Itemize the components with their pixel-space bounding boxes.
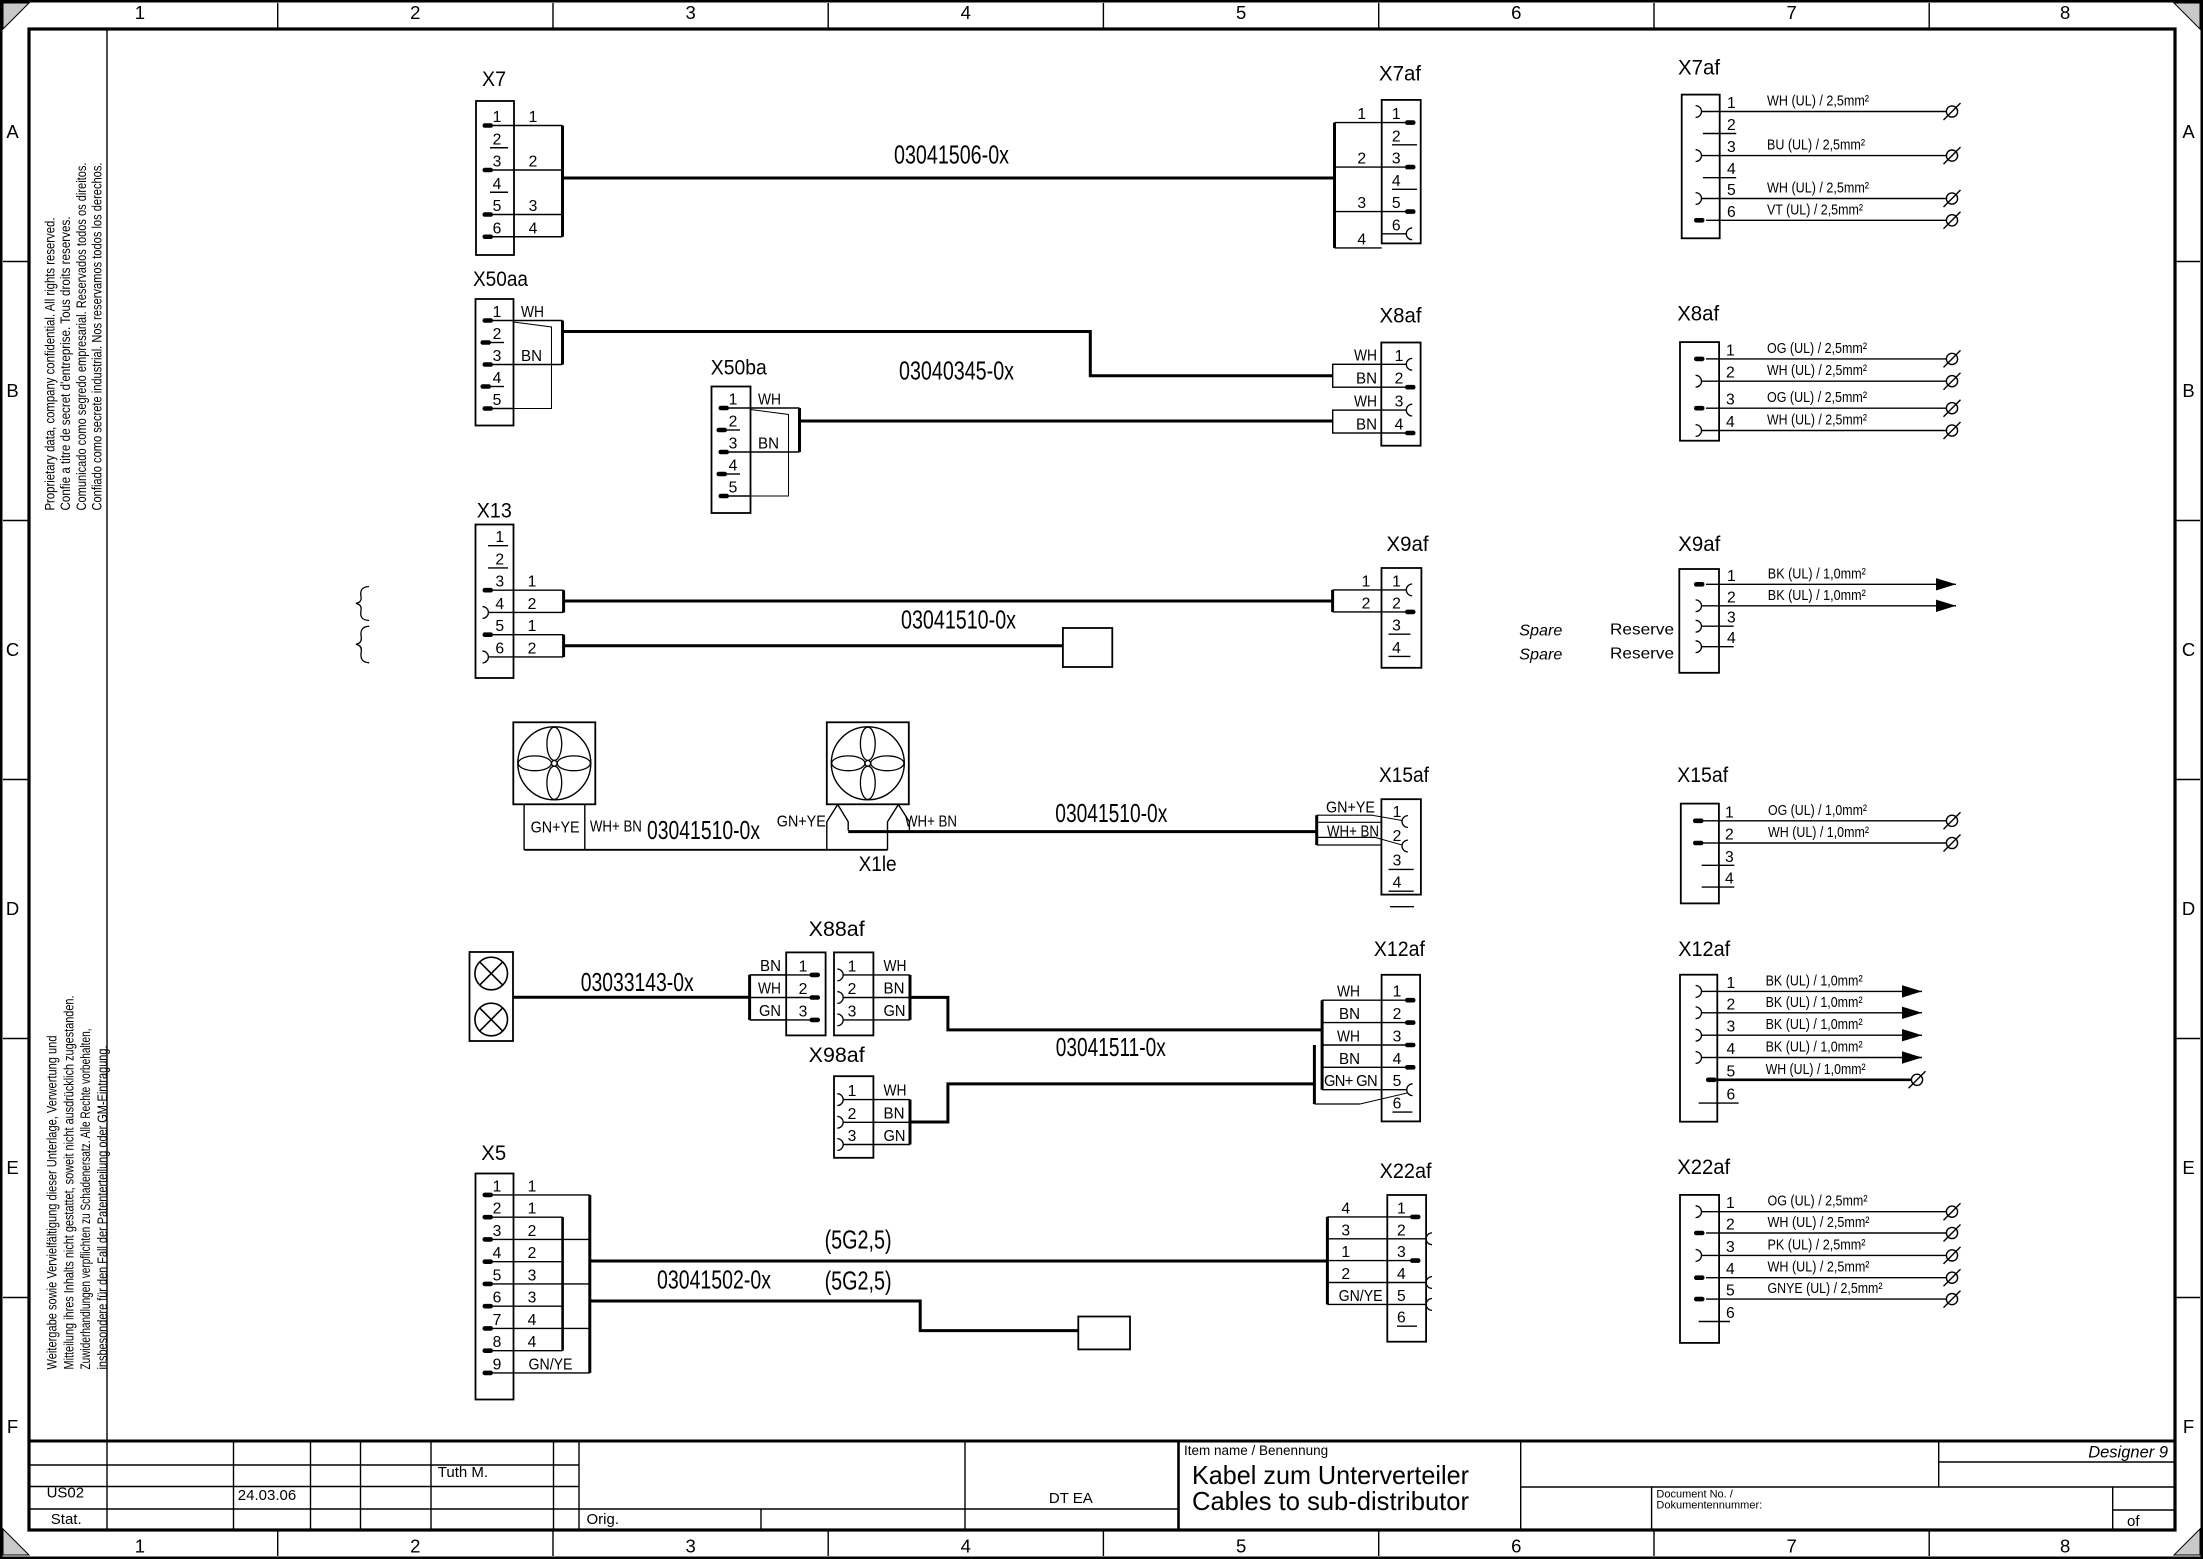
svg-text:03041510-0x: 03041510-0x bbox=[901, 605, 1016, 635]
svg-text:03041510-0x: 03041510-0x bbox=[647, 815, 760, 845]
svg-text:1: 1 bbox=[1726, 1195, 1735, 1212]
svg-text:5: 5 bbox=[1236, 1536, 1246, 1557]
svg-text:OG (UL) / 2,5mm²: OG (UL) / 2,5mm² bbox=[1768, 1193, 1868, 1210]
svg-text:1: 1 bbox=[528, 618, 537, 635]
svg-text:2: 2 bbox=[528, 1245, 537, 1262]
svg-text:BN: BN bbox=[1339, 1051, 1360, 1068]
svg-text:8: 8 bbox=[2060, 1536, 2070, 1557]
svg-text:5: 5 bbox=[493, 1267, 502, 1284]
svg-text:5: 5 bbox=[493, 198, 502, 215]
svg-text:2: 2 bbox=[493, 1201, 502, 1218]
svg-text:X7: X7 bbox=[482, 68, 506, 91]
svg-text:4: 4 bbox=[493, 176, 502, 193]
svg-text:2: 2 bbox=[1362, 595, 1371, 612]
svg-text:1: 1 bbox=[1393, 804, 1402, 821]
svg-text:2: 2 bbox=[1357, 151, 1366, 168]
svg-text:X22af: X22af bbox=[1677, 1156, 1730, 1179]
svg-text:(5G2,5): (5G2,5) bbox=[825, 1266, 892, 1296]
svg-text:03041502-0x: 03041502-0x bbox=[657, 1265, 771, 1295]
svg-text:3: 3 bbox=[1725, 849, 1734, 866]
svg-text:X50aa: X50aa bbox=[473, 268, 528, 291]
svg-text:4: 4 bbox=[1393, 875, 1402, 892]
svg-text:X7af: X7af bbox=[1379, 63, 1421, 86]
svg-text:WH: WH bbox=[1337, 1029, 1360, 1046]
svg-text:3: 3 bbox=[1392, 151, 1401, 168]
fan motor 2 bbox=[827, 722, 909, 804]
svg-text:WH: WH bbox=[1337, 984, 1360, 1001]
svg-text:4: 4 bbox=[1726, 414, 1735, 431]
svg-text:3: 3 bbox=[493, 154, 502, 171]
wire X15af-1 OG to terminal bbox=[1719, 802, 1961, 830]
svg-text:4: 4 bbox=[1395, 417, 1404, 434]
svg-text:GN+YE: GN+YE bbox=[777, 813, 826, 830]
svg-text:4: 4 bbox=[493, 1245, 502, 1262]
wire cable 03033143-0x lamps to X88af bbox=[513, 996, 750, 999]
wire X22af-1 OG ( to terminal bbox=[1719, 1193, 1960, 1221]
svg-text:BN: BN bbox=[884, 981, 905, 998]
svg-text:5: 5 bbox=[495, 618, 504, 635]
svg-text:WH (UL) / 2,5mm²: WH (UL) / 2,5mm² bbox=[1768, 1214, 1870, 1231]
svg-text:1: 1 bbox=[493, 304, 502, 321]
wire X22af-5 GNYE to terminal bbox=[1719, 1280, 1960, 1308]
svg-text:4: 4 bbox=[1727, 161, 1736, 178]
title block bbox=[29, 1441, 2175, 1530]
note reproduction prohibited (rotated, bottom-left) bbox=[45, 996, 110, 1370]
connector X5 bbox=[476, 1142, 590, 1400]
svg-text:Cables to sub-distributor: Cables to sub-distributor bbox=[1192, 1486, 1469, 1516]
svg-text:BK (UL) / 1,0mm²: BK (UL) / 1,0mm² bbox=[1766, 972, 1863, 989]
svg-text:3: 3 bbox=[1726, 1239, 1735, 1256]
svg-text:Zuwiderhandlungen verpflichten: Zuwiderhandlungen verpflichten zu Schade… bbox=[78, 1029, 93, 1370]
svg-text:WH (UL) / 2,5mm²: WH (UL) / 2,5mm² bbox=[1767, 93, 1869, 110]
svg-text:8: 8 bbox=[2060, 2, 2070, 23]
svg-text:2: 2 bbox=[848, 1106, 857, 1123]
svg-text:Reserve: Reserve bbox=[1610, 646, 1674, 663]
svg-text:2: 2 bbox=[410, 2, 420, 23]
svg-text:F: F bbox=[7, 1416, 18, 1437]
svg-text:2: 2 bbox=[528, 596, 537, 613]
connector X13 bbox=[476, 500, 514, 679]
svg-text:BN: BN bbox=[760, 958, 781, 975]
svg-text:X98af: X98af bbox=[809, 1044, 865, 1067]
cable cores at X13 pins 3-4 bbox=[514, 574, 564, 613]
wire X7af-1 WH to terminal bbox=[1720, 93, 1961, 121]
svg-text:BN: BN bbox=[1339, 1006, 1360, 1023]
svg-text:3: 3 bbox=[1341, 1222, 1350, 1239]
wire X22af-4 WH ( to terminal bbox=[1719, 1259, 1960, 1287]
svg-text:Stat.: Stat. bbox=[51, 1511, 82, 1528]
svg-text:1: 1 bbox=[1362, 573, 1371, 590]
svg-text:2: 2 bbox=[1726, 1217, 1735, 1234]
svg-text:2: 2 bbox=[848, 981, 857, 998]
svg-text:WH: WH bbox=[758, 981, 781, 998]
svg-text:2: 2 bbox=[493, 131, 502, 148]
svg-text:BK (UL) / 1,0mm²: BK (UL) / 1,0mm² bbox=[1768, 587, 1866, 604]
cable cores at X22af (4,3,1,2,GN/YE) bbox=[1327, 1200, 1387, 1305]
svg-text:1: 1 bbox=[848, 1083, 857, 1100]
svg-text:24.03.06: 24.03.06 bbox=[238, 1487, 296, 1504]
svg-text:4: 4 bbox=[1725, 871, 1734, 888]
cable labels at X8af pins 1-2 (WH/BN) bbox=[1333, 348, 1382, 388]
svg-text:Weitergabe sowie Vervielfält: Weitergabe sowie Vervielfältigung dieser… bbox=[45, 1036, 60, 1370]
wire X12af-2 BK to arrow bbox=[1717, 994, 1922, 1019]
svg-text:BN: BN bbox=[1356, 417, 1377, 434]
wire cable 03041510-0x fan1 to X1le bbox=[524, 849, 887, 851]
svg-text:3: 3 bbox=[848, 1003, 857, 1020]
svg-text:US02: US02 bbox=[47, 1485, 85, 1502]
svg-text:X88af: X88af bbox=[809, 918, 865, 941]
svg-text:8: 8 bbox=[493, 1334, 502, 1351]
svg-text:Designer 9: Designer 9 bbox=[2088, 1444, 2168, 1462]
svg-text:1: 1 bbox=[1393, 984, 1402, 1001]
cable end box (lower) bbox=[1078, 1317, 1130, 1350]
svg-text:WH (UL) / 2,5mm²: WH (UL) / 2,5mm² bbox=[1767, 180, 1869, 197]
connector X1le plug symbols bbox=[827, 805, 910, 877]
svg-text:5: 5 bbox=[1392, 195, 1401, 212]
cable cores at X9af (1-2) bbox=[1333, 573, 1382, 612]
svg-text:Proprietary data, company con: Proprietary data, company confidential. … bbox=[43, 218, 58, 511]
svg-text:WH: WH bbox=[758, 392, 781, 409]
svg-text:1: 1 bbox=[1727, 95, 1736, 112]
svg-text:3: 3 bbox=[685, 1536, 695, 1557]
svg-text:Comunicado como segredo empres: Comunicado como segredo empresarial. Res… bbox=[74, 163, 89, 511]
svg-text:1: 1 bbox=[529, 109, 538, 126]
title block texts bbox=[47, 1443, 2168, 1530]
svg-text:BN: BN bbox=[521, 348, 542, 365]
svg-text:1: 1 bbox=[799, 958, 808, 975]
wire X12af-3 BK to arrow bbox=[1717, 1016, 1922, 1041]
svg-text:1: 1 bbox=[1727, 975, 1736, 992]
connector X15af (sub-distributor side) bbox=[1379, 764, 1429, 907]
cable cores at X7af (1-4) bbox=[1335, 106, 1382, 248]
svg-text:4: 4 bbox=[1727, 630, 1736, 647]
wire X9af-1 BK to arrow bbox=[1719, 565, 1956, 590]
svg-text:03041511-0x: 03041511-0x bbox=[1056, 1032, 1166, 1062]
connector X50aa bbox=[473, 268, 528, 426]
svg-text:X22af: X22af bbox=[1380, 1160, 1432, 1183]
svg-text:WH (UL) / 1,0mm²: WH (UL) / 1,0mm² bbox=[1766, 1061, 1866, 1078]
svg-text:4: 4 bbox=[1341, 1200, 1350, 1217]
connector X7af (field wiring side) bbox=[1678, 57, 1736, 239]
svg-text:OG (UL) / 1,0mm²: OG (UL) / 1,0mm² bbox=[1768, 802, 1867, 819]
svg-text:Reserve: Reserve bbox=[1610, 622, 1674, 639]
note proprietary data (rotated, top-left) bbox=[43, 163, 105, 511]
svg-text:2: 2 bbox=[528, 1223, 537, 1240]
wire cable 03040345-0x from X50aa to X8af bbox=[563, 332, 1333, 376]
fan 1 wires GN+YE / WH+BN bbox=[524, 804, 642, 849]
svg-text:BK (UL) / 1,0mm²: BK (UL) / 1,0mm² bbox=[1766, 1039, 1863, 1056]
svg-text:03041506-0x: 03041506-0x bbox=[894, 140, 1009, 170]
cable labels at X88af right (WH/BN/GN) bbox=[884, 958, 911, 1020]
svg-text:6: 6 bbox=[1727, 204, 1736, 221]
svg-text:3: 3 bbox=[528, 1290, 537, 1307]
svg-text:1: 1 bbox=[528, 1201, 537, 1218]
svg-text:1: 1 bbox=[135, 1536, 145, 1557]
svg-text:1: 1 bbox=[1727, 568, 1736, 585]
svg-text:GNYE (UL) / 2,5mm²: GNYE (UL) / 2,5mm² bbox=[1768, 1280, 1883, 1297]
cable end box bbox=[1063, 628, 1112, 667]
svg-text:X8af: X8af bbox=[1380, 305, 1422, 328]
wire cable 03041506-0x bbox=[563, 177, 1335, 180]
svg-text:PK (UL) / 2,5mm²: PK (UL) / 2,5mm² bbox=[1768, 1236, 1866, 1253]
svg-text:DT EA: DT EA bbox=[1049, 1490, 1093, 1507]
svg-text:1: 1 bbox=[528, 1178, 537, 1195]
wire cable from X50ba to X8af pins 3-4 bbox=[800, 420, 1333, 423]
svg-text:6: 6 bbox=[1511, 2, 1521, 23]
svg-text:E: E bbox=[6, 1157, 18, 1178]
svg-text:4: 4 bbox=[1357, 231, 1366, 248]
svg-text:2: 2 bbox=[529, 154, 538, 171]
wire X22af-2 WH ( to terminal bbox=[1719, 1214, 1960, 1242]
svg-text:GN: GN bbox=[884, 1128, 906, 1145]
svg-text:5: 5 bbox=[1727, 1063, 1736, 1080]
connector X15af (field wiring side) bbox=[1677, 764, 1734, 903]
cable labels at X88af left (BN/WH/GN) bbox=[750, 958, 787, 1020]
svg-text:2: 2 bbox=[1393, 1006, 1402, 1023]
connector X7af (sub-distributor side) bbox=[1379, 63, 1421, 244]
svg-text:3: 3 bbox=[1392, 618, 1401, 635]
svg-text:3: 3 bbox=[493, 1223, 502, 1240]
svg-text:GN: GN bbox=[759, 1003, 781, 1020]
fan 2 wire labels bbox=[777, 813, 957, 830]
svg-text:1: 1 bbox=[1357, 106, 1366, 123]
svg-text:4: 4 bbox=[1397, 1266, 1406, 1283]
svg-text:6: 6 bbox=[1397, 1310, 1406, 1327]
wire X12af-4 BK to arrow bbox=[1717, 1039, 1922, 1064]
wire cable 03041510-0x X13 to X9af bbox=[564, 600, 1333, 603]
svg-text:6: 6 bbox=[1392, 217, 1401, 234]
svg-text:3: 3 bbox=[1726, 392, 1735, 409]
svg-text:X9af: X9af bbox=[1387, 533, 1429, 556]
svg-text:3: 3 bbox=[1727, 1019, 1736, 1036]
svg-text:4: 4 bbox=[1726, 1261, 1735, 1278]
svg-text:Mitteilung ihres Inhalts nicht: Mitteilung ihres Inhalts nicht gestattet… bbox=[61, 996, 76, 1370]
svg-text:D: D bbox=[2182, 898, 2195, 919]
cable screen path at X12af pin 5 bbox=[1314, 1045, 1407, 1104]
svg-text:Tuth M.: Tuth M. bbox=[438, 1464, 488, 1481]
wire X7af-5 WH to terminal bbox=[1720, 180, 1961, 208]
svg-text:2: 2 bbox=[1392, 128, 1401, 145]
svg-text:(5G2,5): (5G2,5) bbox=[825, 1225, 892, 1255]
svg-text:BN: BN bbox=[1356, 371, 1377, 388]
wire X7af-6 VT to terminal bbox=[1720, 201, 1961, 229]
wire X15af-2 WH to terminal bbox=[1719, 824, 1961, 852]
svg-text:03040345-0x: 03040345-0x bbox=[899, 356, 1014, 386]
connector X12af (field wiring side) bbox=[1678, 938, 1738, 1122]
svg-text:GN+YE: GN+YE bbox=[1326, 799, 1375, 816]
connector X8af (sub-distributor side) bbox=[1380, 305, 1422, 446]
svg-text:6: 6 bbox=[1726, 1305, 1735, 1322]
svg-text:9: 9 bbox=[493, 1356, 502, 1373]
wire X9af-2 BK to arrow bbox=[1719, 587, 1956, 612]
svg-text:X1le: X1le bbox=[859, 853, 897, 876]
svg-text:1: 1 bbox=[135, 2, 145, 23]
svg-text:6: 6 bbox=[495, 640, 504, 657]
svg-text:6: 6 bbox=[1511, 1536, 1521, 1557]
svg-text:F: F bbox=[2183, 1416, 2194, 1437]
cable box X50aa (WH/BN cores) bbox=[514, 304, 563, 409]
svg-text:7: 7 bbox=[1786, 1536, 1796, 1557]
svg-text:WH: WH bbox=[884, 1083, 907, 1100]
svg-text:3: 3 bbox=[495, 574, 504, 591]
svg-text:2: 2 bbox=[493, 326, 502, 343]
svg-text:5: 5 bbox=[1727, 182, 1736, 199]
svg-text:BK (UL) / 1,0mm²: BK (UL) / 1,0mm² bbox=[1768, 565, 1866, 582]
svg-text:5: 5 bbox=[1393, 1073, 1402, 1090]
svg-text:of: of bbox=[2127, 1513, 2140, 1530]
svg-text:3: 3 bbox=[685, 2, 695, 23]
svg-text:1: 1 bbox=[848, 958, 857, 975]
svg-text:1: 1 bbox=[729, 392, 738, 409]
svg-text:2: 2 bbox=[1727, 589, 1736, 606]
svg-text:3: 3 bbox=[729, 436, 738, 453]
svg-text:5: 5 bbox=[729, 480, 738, 497]
svg-text:C: C bbox=[6, 639, 19, 660]
svg-text:4: 4 bbox=[528, 1334, 537, 1351]
wire cable 03041510-0x fan2 to X15af bbox=[848, 830, 1316, 833]
svg-text:BU (UL) / 2,5mm²: BU (UL) / 2,5mm² bbox=[1767, 137, 1865, 154]
svg-text:A: A bbox=[6, 121, 19, 142]
connector X22af (sub-distributor side) bbox=[1380, 1160, 1432, 1342]
svg-text:1: 1 bbox=[493, 1178, 502, 1195]
svg-text:2: 2 bbox=[1727, 117, 1736, 134]
svg-text:3: 3 bbox=[799, 1003, 808, 1020]
svg-text:X12af: X12af bbox=[1678, 938, 1730, 961]
connector X9af (sub-distributor side) bbox=[1382, 533, 1429, 668]
svg-text:1: 1 bbox=[493, 109, 502, 126]
svg-text:1: 1 bbox=[1392, 573, 1401, 590]
svg-text:X13: X13 bbox=[477, 500, 512, 523]
connector X50ba bbox=[711, 357, 767, 514]
svg-text:1: 1 bbox=[1341, 1244, 1350, 1261]
svg-text:Confiado como secrete industri: Confiado como secrete industrial. Nos re… bbox=[90, 163, 105, 511]
wire X8af-1 OG to terminal bbox=[1719, 340, 1960, 368]
connector X88af (sub-distributor cable side) bbox=[834, 952, 910, 1035]
svg-text:2: 2 bbox=[410, 1536, 420, 1557]
svg-text:4: 4 bbox=[493, 370, 502, 387]
svg-text:BK (UL) / 1,0mm²: BK (UL) / 1,0mm² bbox=[1766, 1016, 1863, 1033]
svg-text:GN: GN bbox=[884, 1003, 906, 1020]
svg-text:Item name / Benennung: Item name / Benennung bbox=[1184, 1443, 1328, 1458]
svg-text:OG (UL) / 2,5mm²: OG (UL) / 2,5mm² bbox=[1767, 340, 1867, 357]
wire X12af-5 WH to terminal bbox=[1717, 1061, 1925, 1089]
svg-text:2: 2 bbox=[1726, 365, 1735, 382]
connector X9af (field wiring side) bbox=[1678, 533, 1736, 673]
svg-text:GN/YE: GN/YE bbox=[529, 1356, 573, 1373]
svg-text:VT (UL) / 2,5mm²: VT (UL) / 2,5mm² bbox=[1767, 201, 1863, 218]
svg-text:insbesondere für den Fall der: insbesondere für den Fall der Patenterte… bbox=[95, 1046, 110, 1370]
svg-text:6: 6 bbox=[1393, 1096, 1402, 1113]
svg-text:Dokumentennummer:: Dokumentennummer: bbox=[1656, 1500, 1762, 1512]
svg-text:2: 2 bbox=[495, 551, 504, 568]
svg-text:5: 5 bbox=[493, 392, 502, 409]
svg-text:5: 5 bbox=[1726, 1283, 1735, 1300]
svg-text:WH: WH bbox=[1354, 394, 1377, 411]
cable cores at X13 pins 5-6 bbox=[514, 618, 564, 657]
svg-text:5: 5 bbox=[1397, 1288, 1406, 1305]
cable cores at X7 (1-4) bbox=[514, 109, 563, 237]
svg-text:4: 4 bbox=[495, 596, 504, 613]
svg-text:4: 4 bbox=[528, 1312, 537, 1329]
svg-text:E: E bbox=[2182, 1157, 2194, 1178]
wire cable 03041502-0x lower to cable end bbox=[590, 1301, 1079, 1331]
wire X22af-3 PK ( to terminal bbox=[1719, 1236, 1960, 1264]
svg-text:GN/YE: GN/YE bbox=[1339, 1288, 1383, 1305]
svg-text:WH (UL) / 2,5mm²: WH (UL) / 2,5mm² bbox=[1767, 412, 1867, 429]
svg-text:D: D bbox=[6, 898, 19, 919]
svg-text:WH (UL) / 2,5mm²: WH (UL) / 2,5mm² bbox=[1768, 1259, 1870, 1276]
svg-text:6: 6 bbox=[493, 220, 502, 237]
svg-text:OG (UL) / 2,5mm²: OG (UL) / 2,5mm² bbox=[1767, 389, 1867, 406]
svg-text:3: 3 bbox=[529, 198, 538, 215]
svg-text:BN: BN bbox=[884, 1106, 905, 1123]
cable labels at X8af pins 3-4 (WH/BN) bbox=[1333, 394, 1382, 434]
svg-text:6: 6 bbox=[493, 1290, 502, 1307]
svg-text:7: 7 bbox=[493, 1312, 502, 1329]
svg-text:A: A bbox=[2182, 121, 2195, 142]
svg-text:2: 2 bbox=[1725, 827, 1734, 844]
svg-text:B: B bbox=[6, 380, 18, 401]
svg-text:3: 3 bbox=[493, 348, 502, 365]
svg-text:X15af: X15af bbox=[1677, 764, 1728, 787]
wire X8af-3 OG to terminal bbox=[1719, 389, 1960, 417]
svg-text:3: 3 bbox=[1397, 1244, 1406, 1261]
svg-text:1: 1 bbox=[1725, 804, 1734, 821]
cable cores at X12af (WH/BN/WH/BN/GN+GN) bbox=[1322, 984, 1382, 1090]
svg-text:3: 3 bbox=[528, 1267, 537, 1284]
connector X22af (field wiring side) bbox=[1677, 1156, 1735, 1343]
svg-text:7: 7 bbox=[1786, 2, 1796, 23]
connector X8af (field wiring side) bbox=[1677, 303, 1735, 441]
svg-text:3: 3 bbox=[1395, 394, 1404, 411]
wire cable 03041502-0x (5G2,5) upper to X22af bbox=[590, 1260, 1328, 1263]
svg-text:2: 2 bbox=[1727, 996, 1736, 1013]
svg-text:3: 3 bbox=[1727, 610, 1736, 627]
fan motor 1 bbox=[513, 722, 595, 804]
svg-text:WH: WH bbox=[1354, 348, 1377, 365]
svg-text:X15af: X15af bbox=[1379, 764, 1429, 787]
indicator lamps bbox=[470, 952, 514, 1041]
cable cores at X5 (1,1,2,2,3,3,4,4,GN/YE) bbox=[528, 1178, 590, 1373]
svg-text:WH+ BN: WH+ BN bbox=[590, 819, 642, 836]
svg-text:1: 1 bbox=[495, 529, 504, 546]
svg-text:WH: WH bbox=[884, 958, 907, 975]
cable box X50ba (WH/BN cores) bbox=[751, 392, 800, 497]
svg-text:X9af: X9af bbox=[1678, 533, 1720, 556]
connector X12af (sub-distributor side) bbox=[1374, 938, 1425, 1121]
cable break braces at X13 bbox=[356, 587, 369, 663]
svg-text:B: B bbox=[2182, 380, 2194, 401]
svg-text:GN+YE: GN+YE bbox=[531, 820, 580, 837]
svg-text:WH (UL) / 2,5mm²: WH (UL) / 2,5mm² bbox=[1767, 362, 1867, 379]
svg-text:3: 3 bbox=[1357, 195, 1366, 212]
svg-text:4: 4 bbox=[529, 220, 538, 237]
connector X98af bbox=[809, 1044, 910, 1158]
svg-text:2: 2 bbox=[528, 640, 537, 657]
svg-text:1: 1 bbox=[1392, 106, 1401, 123]
svg-text:X5: X5 bbox=[481, 1142, 506, 1165]
svg-text:3: 3 bbox=[848, 1128, 857, 1145]
svg-text:Confie a titre de secret d': Confie a titre de secret d'entreprise. T… bbox=[58, 216, 73, 510]
svg-text:BN: BN bbox=[758, 436, 779, 453]
svg-text:4: 4 bbox=[1393, 1051, 1402, 1068]
svg-text:4: 4 bbox=[1727, 1041, 1736, 1058]
svg-text:X50ba: X50ba bbox=[711, 357, 767, 380]
svg-text:1: 1 bbox=[1397, 1200, 1406, 1217]
cable cores at X15af (GN+YE / WH+BN) bbox=[1317, 799, 1402, 845]
svg-text:C: C bbox=[2182, 639, 2195, 660]
wire X8af-4 WH to terminal bbox=[1719, 412, 1960, 440]
